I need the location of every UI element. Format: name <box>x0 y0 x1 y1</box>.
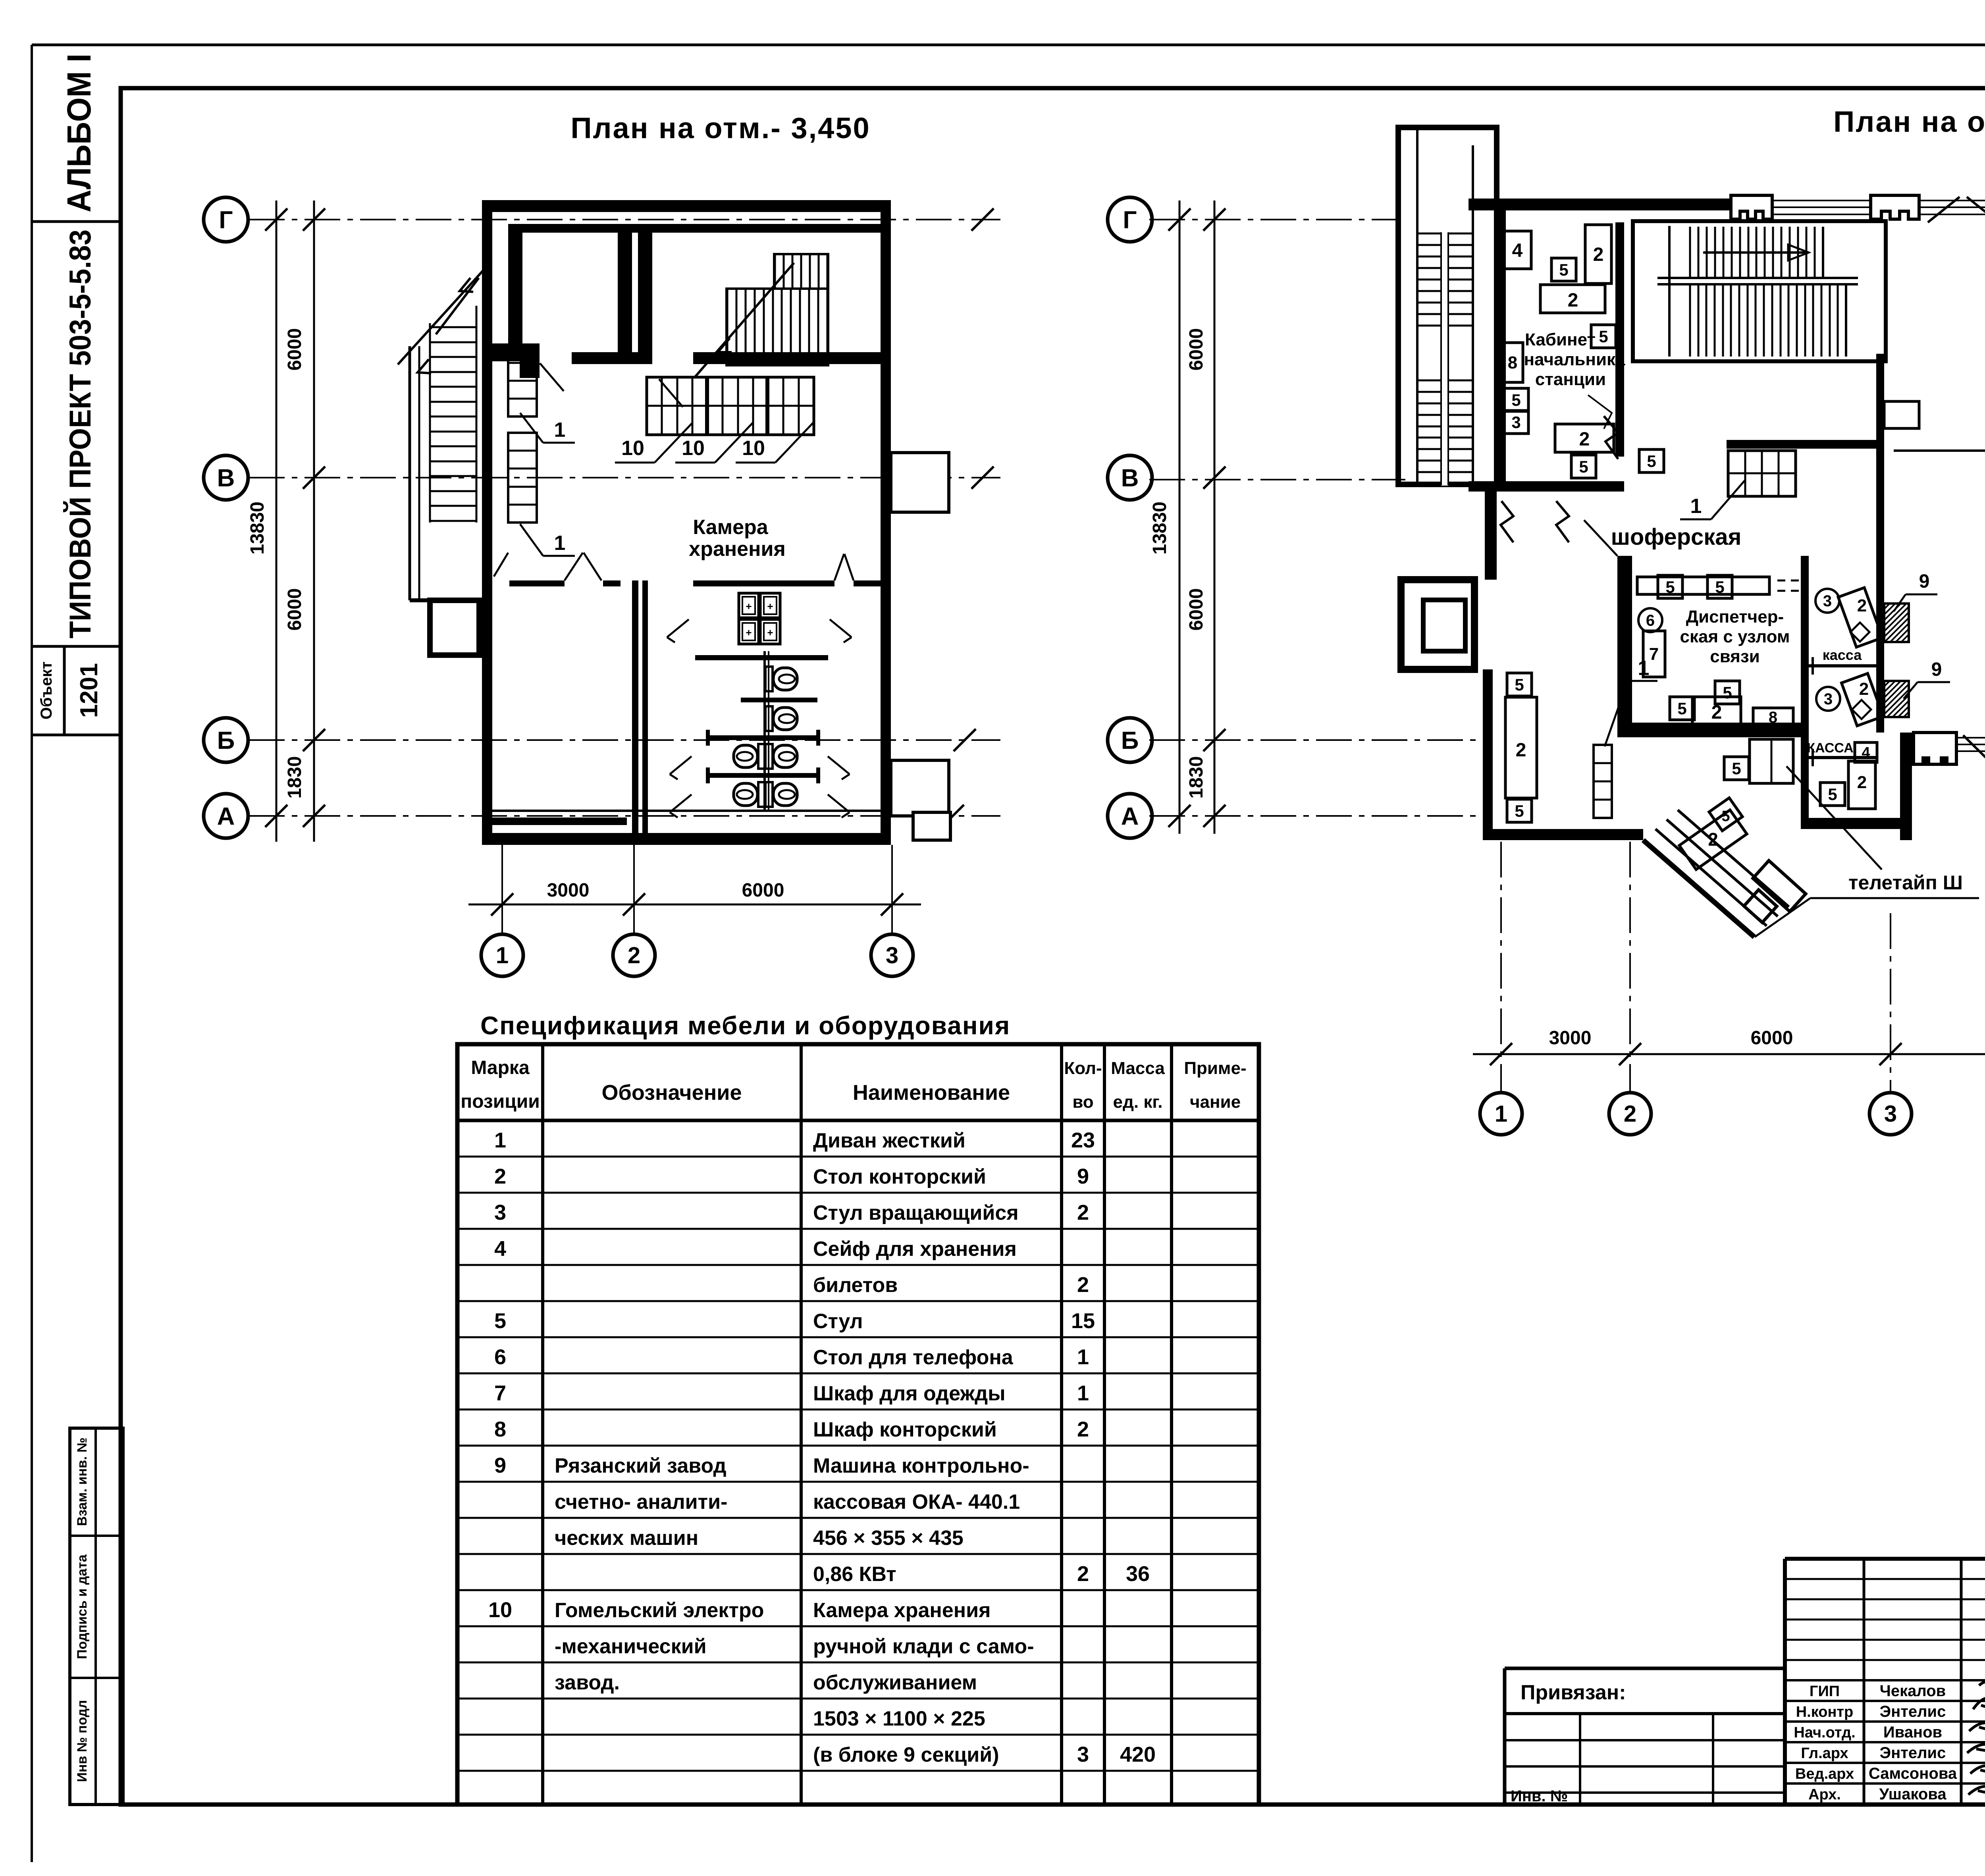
svg-text:2: 2 <box>1708 829 1718 850</box>
svg-text:3: 3 <box>1824 690 1833 708</box>
svg-text:+: + <box>767 627 773 638</box>
svg-text:ед. кг.: ед. кг. <box>1113 1092 1162 1112</box>
svg-text:10: 10 <box>621 437 644 460</box>
svg-text:5: 5 <box>1599 327 1608 346</box>
svg-text:13830: 13830 <box>1149 501 1170 554</box>
svg-text:9: 9 <box>1919 571 1930 592</box>
svg-text:Сейф для хранения: Сейф для хранения <box>813 1238 1017 1261</box>
svg-text:обслуживанием: обслуживанием <box>813 1671 977 1694</box>
svg-text:36: 36 <box>1126 1562 1150 1586</box>
svg-text:позиции: позиции <box>461 1091 540 1112</box>
svg-text:Энтелис: Энтелис <box>1880 1703 1946 1720</box>
svg-text:Н.контр: Н.контр <box>1796 1704 1854 1720</box>
svg-text:Стол для телефона: Стол для телефона <box>813 1346 1014 1369</box>
svg-text:5: 5 <box>1723 683 1732 702</box>
svg-text:1: 1 <box>554 418 566 442</box>
svg-text:5: 5 <box>1828 785 1837 804</box>
svg-text:Г: Г <box>1123 206 1137 234</box>
svg-text:КАССА: КАССА <box>1807 740 1853 756</box>
svg-text:6000: 6000 <box>742 880 784 901</box>
svg-text:1: 1 <box>494 1128 506 1152</box>
svg-text:2: 2 <box>1568 290 1578 311</box>
svg-text:Шкаф для одежды: Шкаф для одежды <box>813 1382 1006 1405</box>
svg-text:3: 3 <box>1884 1101 1897 1127</box>
svg-text:1: 1 <box>496 943 509 968</box>
svg-text:10: 10 <box>742 437 765 460</box>
svg-text:6000: 6000 <box>1186 328 1207 371</box>
svg-text:3: 3 <box>1511 413 1521 432</box>
svg-text:1: 1 <box>1077 1381 1089 1405</box>
svg-text:9: 9 <box>1077 1165 1089 1188</box>
svg-text:Гомельский электро: Гомельский электро <box>555 1599 764 1622</box>
svg-text:ГИП: ГИП <box>1810 1683 1840 1700</box>
svg-text:456 × 355 × 435: 456 × 355 × 435 <box>813 1527 964 1550</box>
svg-text:1830: 1830 <box>284 756 305 799</box>
svg-text:Гл.арх: Гл.арх <box>1801 1745 1848 1762</box>
svg-text:1: 1 <box>1638 657 1650 680</box>
svg-text:10: 10 <box>488 1598 512 1622</box>
svg-text:Привязан:: Привязан: <box>1521 1681 1626 1704</box>
svg-text:3: 3 <box>886 943 898 968</box>
svg-text:ручной клади с само-: ручной клади с само- <box>813 1635 1034 1658</box>
svg-text:Б: Б <box>1121 727 1139 754</box>
svg-text:Самсонова: Самсонова <box>1869 1765 1957 1782</box>
svg-text:Марка: Марка <box>471 1057 530 1078</box>
svg-text:Стол конторский: Стол конторский <box>813 1165 986 1188</box>
svg-text:АЛЬБОМ I: АЛЬБОМ I <box>60 54 98 212</box>
svg-text:13830: 13830 <box>247 501 268 554</box>
svg-text:Б: Б <box>217 727 235 754</box>
svg-text:2: 2 <box>1857 596 1867 615</box>
svg-text:8: 8 <box>1508 353 1517 372</box>
svg-text:Энтелис: Энтелис <box>1880 1744 1946 1762</box>
svg-text:5: 5 <box>1677 699 1686 718</box>
svg-text:Ушакова: Ушакова <box>1879 1785 1946 1803</box>
svg-text:+: + <box>746 627 752 638</box>
svg-text:2: 2 <box>1624 1101 1636 1127</box>
svg-text:1: 1 <box>1690 495 1702 518</box>
svg-text:2: 2 <box>1859 679 1869 699</box>
svg-text:2: 2 <box>1077 1417 1089 1441</box>
svg-text:2: 2 <box>1077 1273 1089 1297</box>
svg-text:2: 2 <box>1711 702 1722 723</box>
svg-text:ТИПОВОЙ ПРОЕКТ 503-5-5.83: ТИПОВОЙ ПРОЕКТ 503-5-5.83 <box>63 229 97 638</box>
svg-text:3000: 3000 <box>547 880 590 901</box>
svg-text:5: 5 <box>1579 457 1588 476</box>
svg-text:шоферская: шоферская <box>1611 524 1742 550</box>
svg-text:Спецификация мебели и обору: Спецификация мебели и оборудования <box>480 1011 1010 1040</box>
svg-text:3: 3 <box>494 1201 506 1224</box>
svg-text:6000: 6000 <box>284 328 305 371</box>
svg-text:2: 2 <box>494 1165 506 1188</box>
svg-text:1: 1 <box>1077 1345 1089 1369</box>
svg-text:(в блоке 9 секций): (в блоке 9 секций) <box>813 1743 999 1766</box>
svg-text:1201: 1201 <box>75 663 103 718</box>
svg-text:5: 5 <box>1647 452 1656 470</box>
svg-text:420: 420 <box>1120 1743 1156 1766</box>
svg-text:5: 5 <box>1732 759 1741 778</box>
svg-text:2: 2 <box>1593 244 1604 265</box>
svg-text:Стул: Стул <box>813 1310 863 1333</box>
svg-text:Диспетчер-: Диспетчер- <box>1686 607 1784 627</box>
svg-text:6000: 6000 <box>284 588 305 631</box>
svg-text:завод.: завод. <box>555 1671 620 1694</box>
svg-text:1: 1 <box>554 532 566 555</box>
svg-text:9: 9 <box>1931 659 1942 680</box>
svg-text:В: В <box>217 465 235 492</box>
svg-text:7: 7 <box>494 1381 506 1405</box>
svg-text:4: 4 <box>1512 240 1523 261</box>
svg-text:хранения: хранения <box>689 538 786 561</box>
svg-text:Вед.арх: Вед.арх <box>1795 1766 1854 1782</box>
svg-text:касса: касса <box>1823 647 1862 663</box>
svg-text:1: 1 <box>1495 1101 1507 1127</box>
svg-text:Чекалов: Чекалов <box>1880 1682 1946 1700</box>
svg-text:-механический: -механический <box>555 1635 707 1658</box>
svg-text:Инв. №: Инв. № <box>1511 1787 1568 1805</box>
svg-text:3: 3 <box>1823 592 1832 610</box>
svg-text:Кабинет: Кабинет <box>1525 330 1596 349</box>
svg-text:3000: 3000 <box>1549 1028 1592 1049</box>
svg-text:7: 7 <box>1649 644 1659 664</box>
svg-text:4: 4 <box>494 1237 506 1261</box>
svg-text:станции: станции <box>1535 370 1606 389</box>
svg-text:8: 8 <box>1769 709 1777 726</box>
svg-text:Машина контрольно-: Машина контрольно- <box>813 1454 1029 1477</box>
svg-text:начальника: начальника <box>1524 350 1625 369</box>
svg-text:15: 15 <box>1071 1309 1095 1333</box>
svg-text:5: 5 <box>1515 802 1524 820</box>
svg-text:Камера: Камера <box>693 516 768 539</box>
svg-text:6000: 6000 <box>1751 1028 1793 1049</box>
svg-text:Приме-: Приме- <box>1184 1059 1246 1078</box>
svg-text:билетов: билетов <box>813 1274 898 1297</box>
svg-text:А: А <box>1121 803 1139 830</box>
svg-text:5: 5 <box>1715 578 1724 596</box>
svg-text:Масса: Масса <box>1111 1059 1165 1078</box>
svg-text:Шкаф конторский: Шкаф конторский <box>813 1418 997 1441</box>
svg-text:23: 23 <box>1071 1128 1095 1152</box>
svg-text:Взам. инв. №: Взам. инв. № <box>75 1437 90 1526</box>
svg-text:ческих машин: ческих машин <box>555 1527 698 1550</box>
svg-text:6: 6 <box>1646 612 1655 629</box>
svg-text:9: 9 <box>494 1454 506 1477</box>
svg-text:5: 5 <box>1511 391 1521 409</box>
svg-text:Инв № подл: Инв № подл <box>75 1700 90 1782</box>
svg-text:План на отм. 0,000: План на отм. 0,000 <box>1833 105 1985 138</box>
svg-text:Обозначение: Обозначение <box>601 1081 742 1105</box>
svg-text:Подпись и дата: Подпись и дата <box>75 1554 90 1659</box>
svg-text:2: 2 <box>1077 1201 1089 1224</box>
svg-text:5: 5 <box>494 1309 506 1333</box>
svg-text:телетайп Ш: телетайп Ш <box>1848 871 1963 894</box>
svg-text:Наименование: Наименование <box>853 1081 1010 1105</box>
svg-text:1830: 1830 <box>1186 756 1207 799</box>
svg-text:6000: 6000 <box>1186 588 1207 631</box>
svg-text:План на отм.- 3,450: План на отм.- 3,450 <box>570 112 870 145</box>
svg-text:0,86 КВт: 0,86 КВт <box>813 1563 896 1586</box>
svg-text:5: 5 <box>1559 260 1568 279</box>
svg-text:Стул вращающийся: Стул вращающийся <box>813 1201 1019 1224</box>
svg-text:5: 5 <box>1721 808 1730 825</box>
svg-text:Арх.: Арх. <box>1808 1786 1841 1803</box>
svg-text:В: В <box>1121 465 1139 492</box>
svg-text:ская с узлом: ская с узлом <box>1680 627 1790 646</box>
svg-text:Кол-: Кол- <box>1064 1059 1102 1078</box>
svg-text:5: 5 <box>1515 675 1524 694</box>
svg-text:Иванов: Иванов <box>1883 1724 1942 1741</box>
svg-text:3: 3 <box>1077 1743 1089 1766</box>
svg-text:1503 × 1100 × 225: 1503 × 1100 × 225 <box>813 1707 985 1730</box>
svg-text:2: 2 <box>1579 429 1590 450</box>
svg-text:кассовая ОКА- 440.1: кассовая ОКА- 440.1 <box>813 1490 1020 1514</box>
svg-text:Диван жесткий: Диван жесткий <box>813 1129 966 1152</box>
svg-text:чание: чание <box>1190 1092 1241 1112</box>
svg-text:2: 2 <box>1857 773 1867 792</box>
svg-text:Объект: Объект <box>38 661 55 719</box>
svg-text:10: 10 <box>682 437 705 460</box>
svg-text:А: А <box>217 803 235 830</box>
svg-text:Нач.отд.: Нач.отд. <box>1794 1724 1855 1741</box>
svg-text:+: + <box>746 600 752 612</box>
svg-text:5: 5 <box>1665 578 1675 596</box>
svg-text:связи: связи <box>1710 647 1760 666</box>
svg-text:2: 2 <box>628 943 640 968</box>
svg-text:Камера хранения: Камера хранения <box>813 1599 991 1622</box>
svg-text:8: 8 <box>494 1417 506 1441</box>
svg-text:счетно- аналити-: счетно- аналити- <box>555 1490 727 1514</box>
svg-text:6: 6 <box>494 1345 506 1369</box>
svg-text:2: 2 <box>1516 740 1526 761</box>
svg-text:2: 2 <box>1077 1562 1089 1586</box>
svg-text:Г: Г <box>219 206 233 234</box>
svg-text:+: + <box>767 600 773 612</box>
svg-text:во: во <box>1072 1092 1093 1112</box>
svg-text:Рязанский завод: Рязанский завод <box>555 1454 727 1477</box>
svg-text:4: 4 <box>1862 744 1870 761</box>
